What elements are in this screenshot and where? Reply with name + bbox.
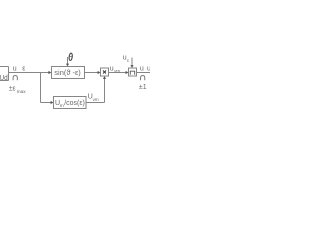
svg-text:±ε: ±ε [9,85,16,92]
svg-text:ε: ε [22,66,25,73]
svg-text:sin(ϑ -ε): sin(ϑ -ε) [54,70,81,77]
svg-text:u: u [147,66,150,73]
svg-text:Ud: Ud [0,75,8,82]
svg-text:u: u [140,66,144,73]
svg-text:vm: vm [114,68,120,73]
svg-text:u: u [110,66,114,73]
svg-text:vm: vm [93,97,99,102]
svg-text:m: m [60,104,64,109]
svg-text:u: u [13,66,17,73]
svg-text:max: max [17,90,27,95]
svg-text:/cos(ε): /cos(ε) [64,100,85,107]
svg-text:±1: ±1 [139,84,147,91]
